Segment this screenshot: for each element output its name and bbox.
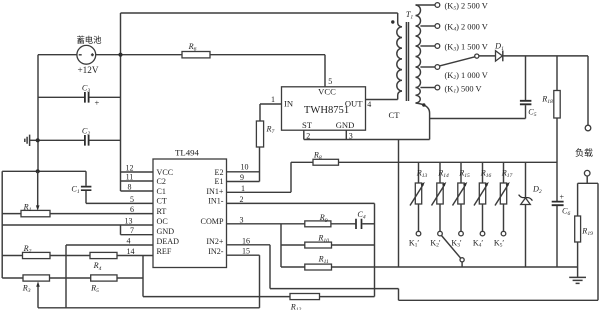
wire resistor-bank feed vertical — [398, 140, 400, 268]
tap terminal K2 — [435, 65, 440, 70]
svg-text:+12V: +12V — [77, 65, 98, 75]
svg-text:3: 3 — [240, 215, 244, 224]
wire IN2- pin15 stub — [227, 254, 260, 256]
svg-text:1: 1 — [271, 95, 275, 104]
svg-text:C2: C2 — [157, 177, 166, 186]
wire ST pin2 stub — [303, 130, 305, 139]
svg-text:E1: E1 — [215, 177, 224, 186]
wire pin11 stub — [121, 180, 154, 182]
resistor R5 — [90, 275, 117, 294]
tap terminal K3 — [435, 44, 440, 49]
resistor R6 — [182, 42, 210, 58]
svg-text:12: 12 — [126, 164, 134, 173]
selector switch contact — [475, 54, 479, 58]
svg-text:CT: CT — [157, 197, 167, 206]
svg-text:4: 4 — [127, 237, 131, 246]
wire GND pin7 branch — [121, 225, 154, 235]
wire load minus stub — [586, 176, 588, 183]
resistor R4 — [90, 252, 117, 271]
svg-text:REF: REF — [157, 247, 172, 256]
wire IN1- pin2 row — [227, 202, 375, 204]
wire bottom-left row R3 wiper to IN2- — [38, 307, 260, 309]
wire battery row right lead to node — [96, 54, 121, 56]
wire left ground bus vertical — [1, 171, 3, 278]
svg-text:(K4) 2 000 V: (K4) 2 000 V — [445, 22, 488, 32]
wire feedback row y288 — [270, 288, 399, 290]
resistor R19 — [575, 183, 593, 277]
wire feedback step vertical — [398, 289, 400, 301]
svg-text:GND: GND — [157, 227, 175, 236]
transformer T1 primary winding — [397, 13, 402, 100]
svg-text:9: 9 — [240, 173, 244, 182]
resistor R9 and lead to C4 — [305, 213, 356, 227]
selector switch lower arm — [442, 236, 461, 259]
svg-text:6: 6 — [130, 205, 134, 214]
svg-text:16: 16 — [242, 236, 250, 245]
svg-text:4: 4 — [367, 100, 371, 109]
tap terminal K5 — [435, 3, 440, 8]
svg-text:5: 5 — [130, 195, 134, 204]
junction node battery/+12V — [118, 53, 122, 57]
tap wire K1 — [420, 87, 435, 89]
wire E1 pin9 stub — [227, 181, 260, 183]
wire top +12V rail — [121, 12, 398, 14]
wire R10 row — [281, 244, 375, 246]
capacitor C1 — [71, 171, 91, 203]
ground symbol right — [569, 277, 586, 283]
terminal K3' — [459, 231, 464, 236]
resistor R10 — [305, 233, 332, 248]
svg-text:OC: OC — [157, 217, 168, 226]
wire pin8 stub — [121, 190, 154, 192]
tap wire K3 — [420, 45, 435, 47]
svg-text:DEAD: DEAD — [157, 237, 180, 246]
terminal K2' — [438, 231, 443, 236]
rheostat R14 — [432, 162, 450, 231]
svg-text:(K2) 1 000 V: (K2) 1 000 V — [445, 71, 488, 81]
terminal K4' — [480, 231, 485, 236]
terminal K1' — [416, 231, 421, 236]
wire pin2 vertical x374.5 — [374, 203, 376, 296]
wire R11 row / bottom rail to ground stem — [281, 266, 578, 268]
wire IN pin1 stub — [260, 104, 282, 121]
diode D1 — [494, 41, 504, 61]
wire R7 bottom to E2/E1 — [259, 147, 261, 182]
wire R19 top bracket — [578, 182, 598, 184]
junction ground/C2 row — [36, 138, 40, 142]
wire OUT pin4 to transformer primary bottom — [366, 99, 398, 101]
wire battery row left lead — [38, 54, 77, 56]
ground symbol left — [25, 135, 38, 146]
wire pin12 stub — [121, 171, 154, 173]
svg-text:1: 1 — [241, 184, 245, 193]
wire R3 R5 row y278 — [2, 277, 143, 279]
rheostat R15 — [453, 162, 471, 231]
wire feedback right vertical to load minus — [597, 183, 599, 300]
capacitor C5 — [520, 56, 537, 119]
resistor R18 — [541, 56, 560, 201]
svg-text:K2′: K2′ — [430, 238, 441, 248]
wire REF to R12 vertical — [142, 256, 144, 297]
transformer primary polarity dot — [391, 20, 394, 23]
svg-text:VCC: VCC — [157, 168, 174, 177]
wire ground row y171 — [2, 170, 86, 172]
wire IN1+ pin1 stub and bend to R8 — [227, 162, 292, 192]
svg-text:(K3) 1 500 V: (K3) 1 500 V — [445, 42, 488, 52]
svg-text:IN: IN — [284, 99, 294, 109]
wire contact to D1 — [479, 55, 496, 57]
wire R1 wiper arrow — [37, 171, 39, 206]
svg-text:RT: RT — [157, 207, 167, 216]
svg-text:13: 13 — [125, 217, 133, 226]
svg-text:ST: ST — [302, 120, 313, 130]
svg-text:IN2+: IN2+ — [206, 237, 224, 246]
svg-text:8: 8 — [128, 183, 132, 192]
svg-text:+: + — [560, 193, 565, 202]
wire R9/R10/R11 left vertical — [280, 224, 282, 267]
wire HV output rail y55.9 — [503, 55, 588, 57]
terminal load minus — [584, 170, 590, 176]
wire DEAD pin4 row — [66, 244, 153, 246]
capacitor C4 — [356, 210, 375, 229]
rheostat R17 — [495, 162, 513, 231]
svg-text:COMP: COMP — [201, 217, 224, 226]
resistor R2 — [23, 244, 51, 259]
wire RT row — [2, 213, 153, 215]
transformer T1 secondary winding — [416, 5, 430, 140]
svg-text:负载: 负载 — [575, 147, 593, 158]
tap terminal K4 — [435, 24, 440, 29]
svg-text:2: 2 — [240, 195, 244, 204]
svg-text:10: 10 — [241, 163, 249, 172]
wire IN2- pin15 drop — [259, 255, 261, 308]
wire CT row to TL494 pin5 — [86, 202, 153, 204]
wire IN2+ pin16 drop — [269, 245, 271, 289]
svg-text:K3′: K3′ — [451, 238, 462, 248]
wire load plus drop — [587, 56, 589, 125]
wire R3 wiper arrow — [37, 286, 39, 308]
resistor R7 — [256, 121, 274, 147]
svg-text:GND: GND — [336, 120, 355, 130]
battery GB 蓄电池 — [76, 35, 102, 75]
wire IN2+ pin16 stub — [227, 244, 271, 246]
wire lower contact stub — [461, 262, 463, 267]
svg-text:+: + — [95, 98, 100, 108]
resistor R11 — [305, 254, 332, 270]
wire OC row y225 — [2, 224, 153, 226]
svg-text:E2: E2 — [215, 168, 224, 177]
terminal K5' — [501, 231, 506, 236]
junction R1 wiper node — [36, 169, 40, 173]
svg-text:蓄电池: 蓄电池 — [76, 35, 102, 45]
wire VCC pin5 stub — [324, 55, 326, 87]
wire feedback bottom row y300 — [399, 299, 599, 301]
wire battery minus vertical bus — [37, 55, 39, 172]
svg-text:11: 11 — [126, 173, 134, 182]
driver U1 TWH8751 box — [282, 87, 366, 131]
svg-text:K1′: K1′ — [409, 238, 420, 248]
resistor R12 — [290, 294, 320, 310]
svg-text:C1: C1 — [157, 187, 166, 196]
svg-text:VCC: VCC — [318, 87, 336, 97]
potentiometer R1 — [21, 202, 50, 216]
terminal load plus — [585, 125, 591, 131]
wire R12 row — [143, 296, 375, 298]
svg-text:K4′: K4′ — [473, 238, 484, 248]
transformer secondary polarity dot — [422, 103, 425, 106]
wire C5 bottom return to secondary — [430, 118, 526, 120]
svg-text:IN1-: IN1- — [208, 197, 224, 206]
rheostat R13 — [410, 162, 428, 231]
wire REF row y255.5 — [2, 255, 153, 257]
tap wire K4 — [420, 25, 435, 27]
svg-text:15: 15 — [242, 247, 250, 256]
tap wire K2 — [420, 66, 435, 68]
capacitor C3 — [38, 83, 121, 107]
selector switch arm — [440, 57, 475, 66]
wire GND pin3 stub — [345, 130, 347, 139]
potentiometer R3 — [22, 275, 50, 294]
wire COMP pin3 row to R9 — [227, 223, 305, 225]
svg-text:IN2-: IN2- — [208, 247, 224, 256]
op-amp controller U2 TL494 box — [153, 148, 227, 268]
svg-text:CT: CT — [389, 110, 401, 120]
svg-text:7: 7 — [130, 226, 134, 235]
wire ST/GND row to transformer secondary return — [304, 139, 430, 141]
rheostat R16 — [474, 162, 492, 231]
wire E2 pin10 stub — [227, 171, 260, 173]
capacitor C2 — [38, 127, 121, 146]
wire R8 row / regulation rail to R18 — [291, 161, 557, 163]
svg-text:TL494: TL494 — [175, 148, 200, 158]
svg-text:5: 5 — [328, 77, 332, 86]
capacitor C6 — [552, 193, 571, 267]
tap terminal K1 — [435, 85, 440, 90]
svg-text:(K5) 2 500 V: (K5) 2 500 V — [445, 1, 488, 11]
svg-text:(K1) 500 V: (K1) 500 V — [445, 84, 482, 94]
svg-text:K5′: K5′ — [494, 238, 505, 248]
resistor R8 — [313, 151, 339, 166]
svg-text:IN1+: IN1+ — [206, 187, 224, 196]
wire DEAD vertical — [65, 245, 67, 308]
wire R6 row from node to TWH8751 VCC bend — [121, 54, 326, 56]
tap wire K5 — [416, 4, 436, 6]
wire main vertical battery node to TL494 VCC pins — [120, 13, 122, 191]
zener diode D2 — [519, 162, 542, 267]
svg-text:TWH8751: TWH8751 — [304, 105, 349, 116]
selector switch lower contact — [460, 258, 464, 262]
svg-text:14: 14 — [127, 247, 135, 256]
transformer core — [406, 22, 408, 101]
